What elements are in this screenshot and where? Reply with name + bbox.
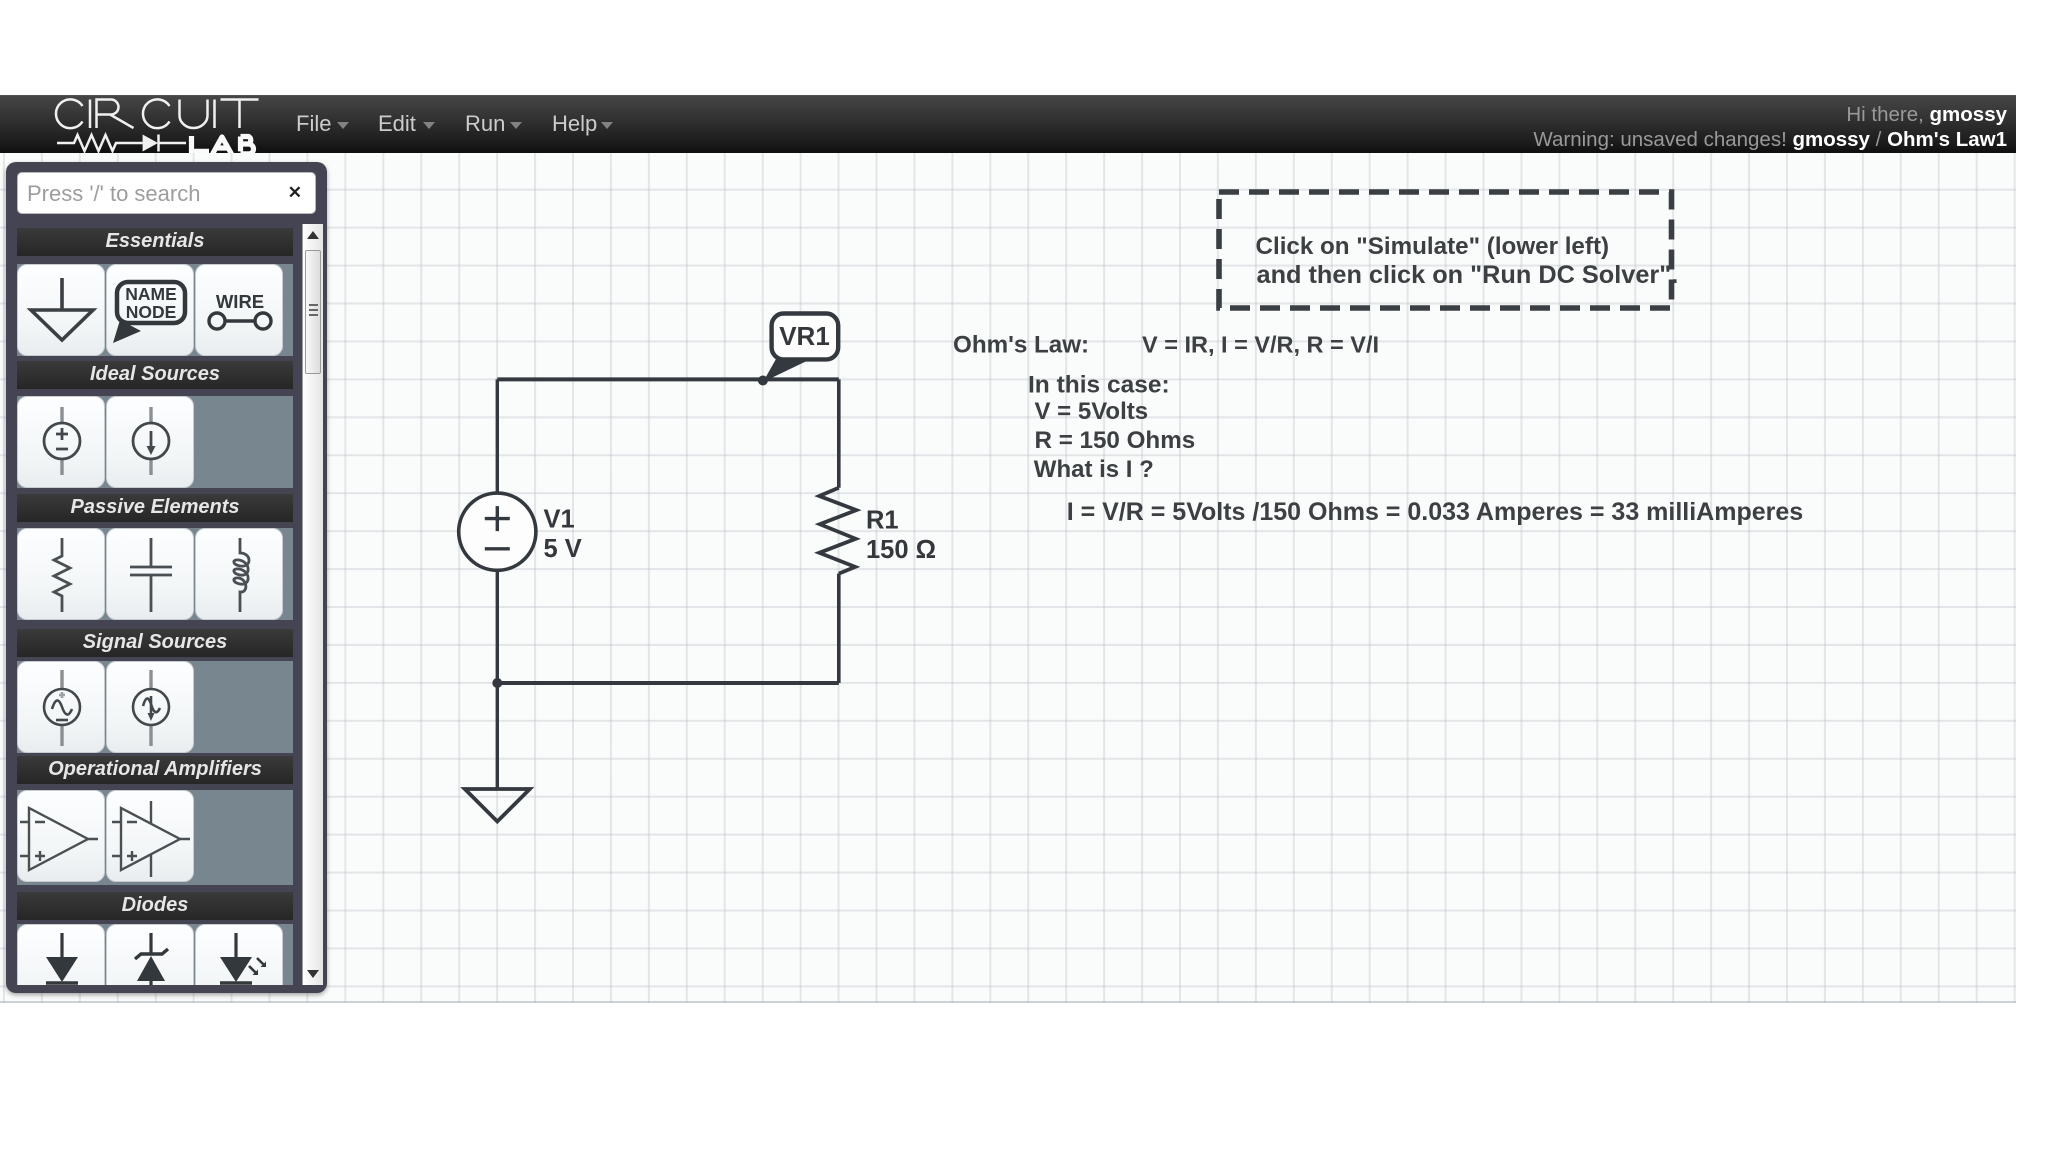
- op-amp button: [17, 790, 105, 882]
- svg-text:and then click on "Run DC Solv: and then click on "Run DC Solver".: [1257, 261, 1679, 289]
- top menu bar: [0, 95, 2016, 153]
- zener diode button: [106, 924, 194, 1016]
- schematic canvas with grid: [0, 153, 2016, 1003]
- svg-text:V1: V1: [544, 506, 575, 534]
- name node button: [106, 264, 194, 356]
- inductor button: [195, 528, 283, 620]
- wire: junction to ground: [496, 683, 499, 789]
- node VR1 flag: [763, 314, 838, 383]
- svg-text:R = 150 Ohms: R = 150 Ohms: [1035, 427, 1196, 454]
- wire: V1 positive lead up to top net: [496, 379, 499, 493]
- svg-text:Click on "Simulate" (lower lef: Click on "Simulate" (lower left): [1256, 233, 1610, 260]
- svg-text:V = 5Volts: V = 5Volts: [1035, 398, 1149, 425]
- svg-text:Ohm's Law:: Ohm's Law:: [953, 332, 1089, 359]
- led button: [195, 924, 283, 1016]
- node VR1 junction dot: [758, 376, 768, 386]
- CircuitLab logo: [50, 93, 290, 161]
- svg-text:NAME: NAME: [125, 284, 177, 304]
- svg-text:R1: R1: [866, 507, 899, 535]
- wire: R1 bottom lead: [837, 574, 841, 683]
- note: ohm's law heading: [953, 332, 1379, 359]
- svg-text:In this case:: In this case:: [1028, 372, 1170, 399]
- resistor R1: [819, 488, 856, 574]
- svg-text:150 Ω: 150 Ω: [866, 536, 936, 564]
- label R1 value 150 ohm: [866, 507, 936, 565]
- voltage source V1: [459, 493, 536, 570]
- svg-text:V = IR, I = V/R, R = V/I: V = IR, I = V/R, R = V/I: [1142, 332, 1379, 358]
- label V1 value 5 V: [544, 506, 582, 564]
- component palette sidebar: [6, 162, 327, 993]
- capacitor button: [106, 528, 194, 620]
- diode button: [17, 924, 105, 1016]
- svg-text:VR1: VR1: [779, 321, 830, 351]
- junction at bottom net: [492, 678, 502, 688]
- svg-text:NODE: NODE: [126, 302, 177, 322]
- op-amp with power pins button: [106, 790, 194, 882]
- current source button: [106, 396, 194, 488]
- wire: R1 top lead: [837, 379, 841, 487]
- svg-text:WIRE: WIRE: [216, 291, 264, 312]
- wire: V1 negative lead down to bottom net: [496, 570, 499, 683]
- wire: top net from V1+ to R1: [497, 377, 839, 381]
- ground: [465, 789, 530, 822]
- svg-text:5 V: 5 V: [544, 535, 582, 563]
- wire: bottom net from V1- to R1: [497, 681, 839, 685]
- svg-text:I = V/R = 5Volts /150 Ohms = 0: I = V/R = 5Volts /150 Ohms = 0.033 Amper…: [1067, 498, 1804, 526]
- note: in this case: [1028, 372, 1195, 484]
- voltage source button: [17, 396, 105, 488]
- signal current source button: [106, 661, 194, 753]
- resistor button: [17, 528, 105, 620]
- note: simulate instruction dashed box: [1219, 192, 1678, 308]
- wire button: [195, 264, 283, 356]
- svg-text:What is I ?: What is I ?: [1034, 456, 1154, 483]
- note: solution line: [1067, 498, 1804, 526]
- signal voltage source button: [17, 661, 105, 753]
- ground symbol button: [17, 264, 105, 356]
